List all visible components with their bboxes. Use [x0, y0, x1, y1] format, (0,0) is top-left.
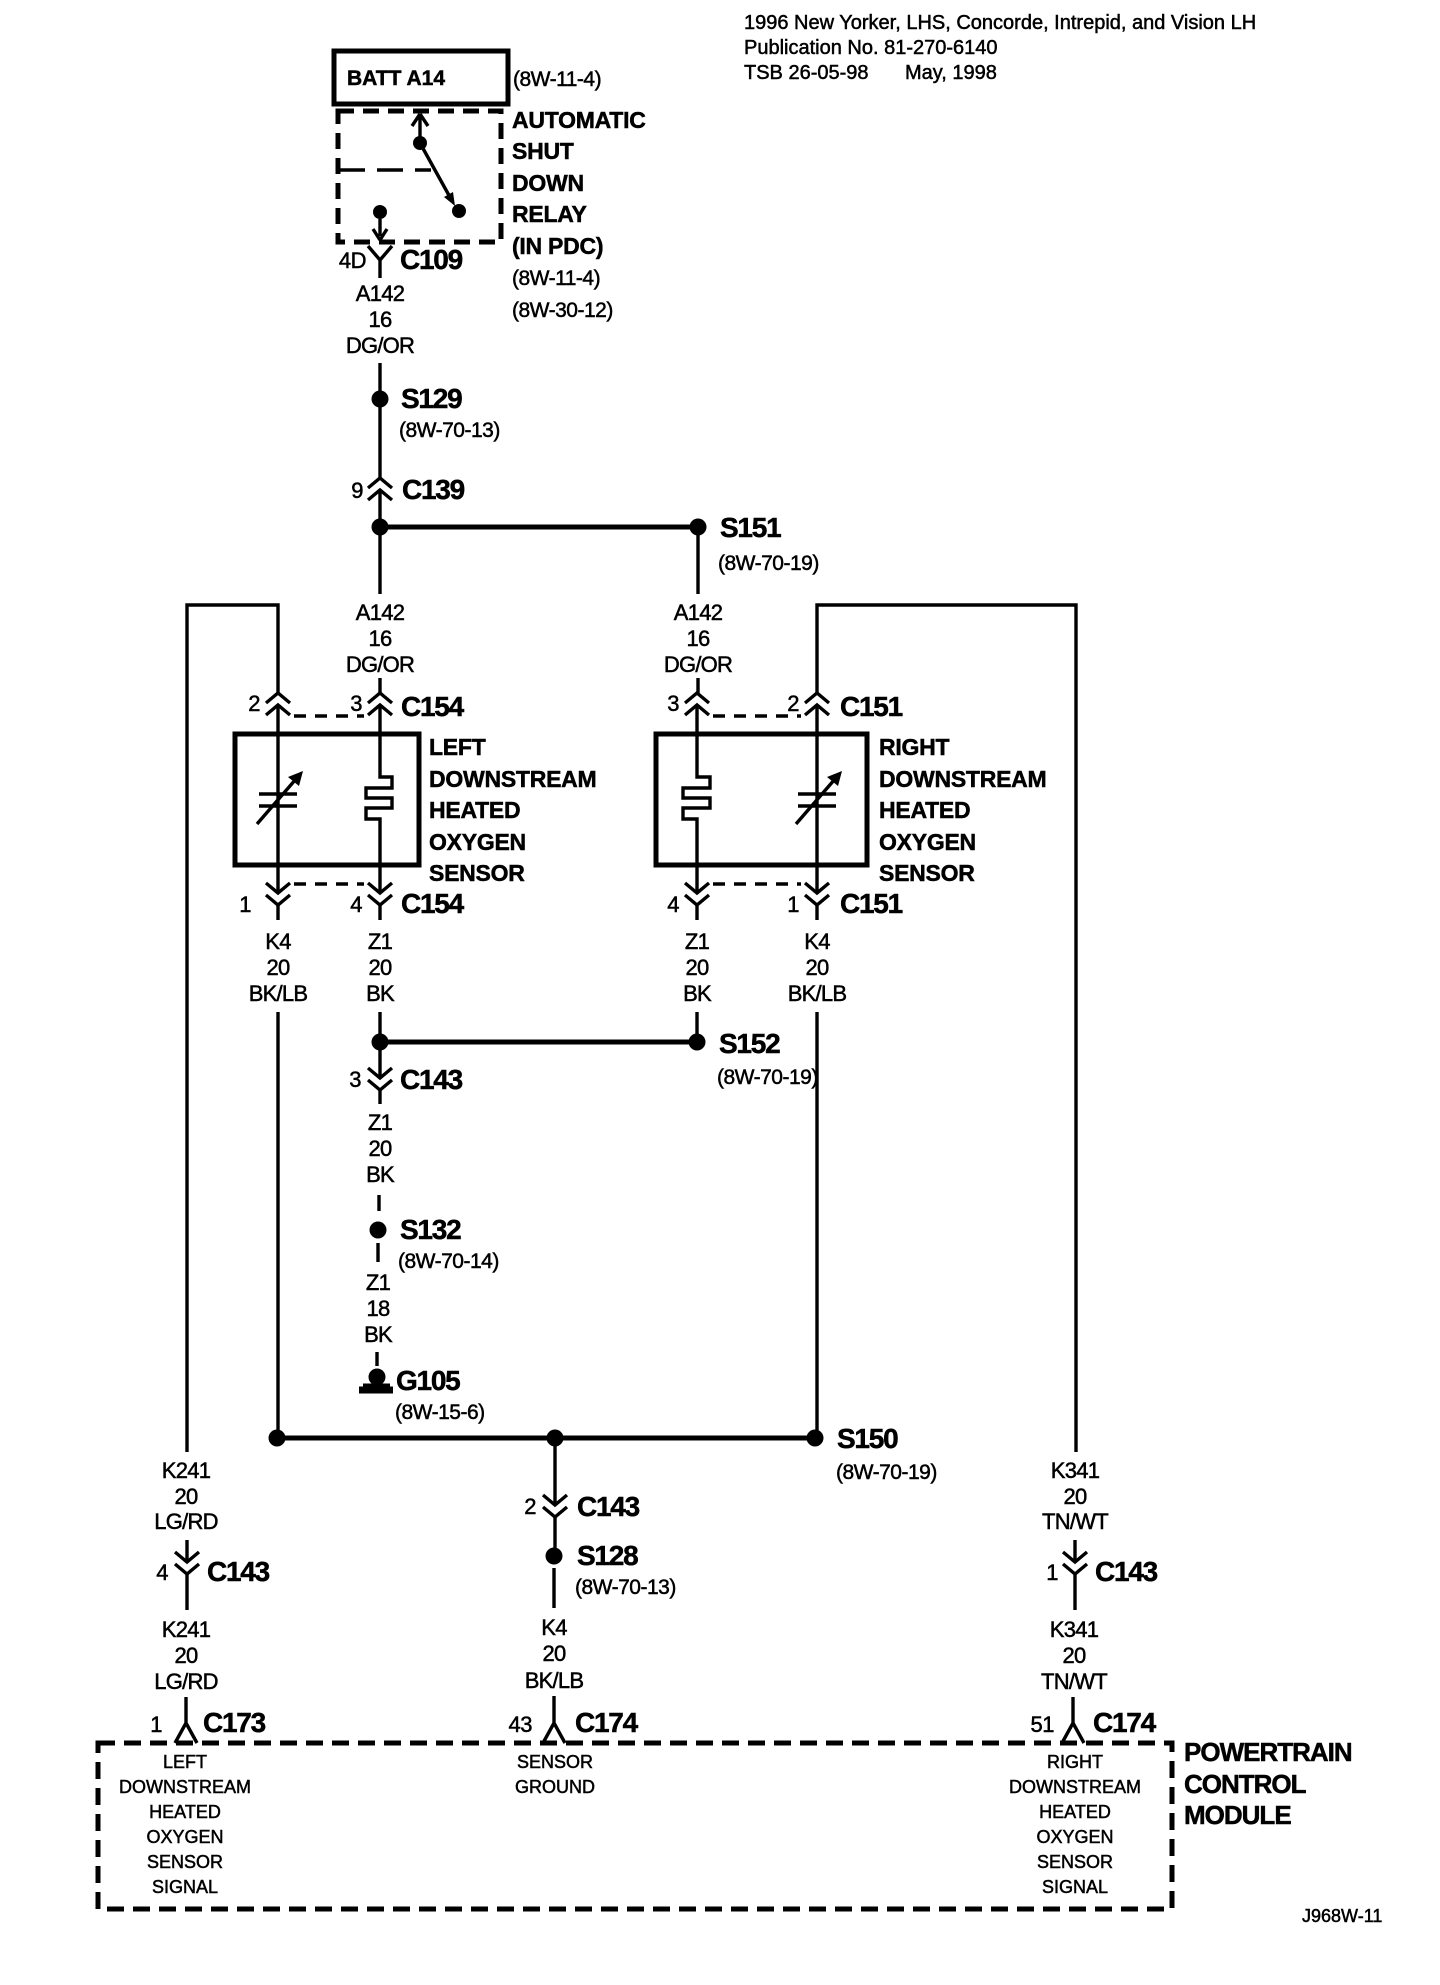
- wire S129 to C139: [378, 407, 381, 478]
- svg-text:TSB 26-05-98: TSB 26-05-98: [744, 62, 869, 84]
- svg-text:DOWNSTREAM: DOWNSTREAM: [119, 1777, 251, 1797]
- svg-text:DG/OR: DG/OR: [664, 652, 732, 677]
- svg-text:OXYGEN: OXYGEN: [1036, 1827, 1113, 1847]
- connector C143 pin 4: [156, 1540, 269, 1592]
- svg-text:TN/WT: TN/WT: [1042, 1509, 1108, 1534]
- node sensor ground label: [515, 1752, 595, 1797]
- splice S151: [690, 512, 819, 575]
- svg-text:C143: C143: [1095, 1556, 1158, 1587]
- sensor left downstream heated oxygen sensor box: [235, 734, 419, 865]
- svg-text:C174: C174: [1093, 1707, 1157, 1738]
- module powertrain control module dashed box: [98, 1743, 1172, 1909]
- svg-text:J968W-11: J968W-11: [1302, 1906, 1382, 1926]
- wire Z1 20 BK label (left): [366, 905, 395, 1006]
- svg-text:C173: C173: [203, 1707, 266, 1738]
- sensor right downstream heated oxygen sensor box: [656, 734, 867, 865]
- svg-text:S152: S152: [719, 1028, 780, 1059]
- svg-text:OXYGEN: OXYGEN: [429, 829, 526, 855]
- connector C139 pin 9: [351, 474, 464, 509]
- svg-text:43: 43: [509, 1712, 533, 1737]
- wire left K4 down to S150 line: [276, 1012, 279, 1438]
- relay switch contacts: [373, 114, 466, 240]
- wire K4 20 BK/LB label (left): [249, 905, 308, 1006]
- svg-text:18: 18: [367, 1296, 390, 1321]
- wire left Z1 to junction: [378, 1012, 381, 1042]
- node right downstream heated oxygen sensor signal label: [1009, 1752, 1141, 1897]
- svg-text:K341: K341: [1051, 1458, 1100, 1483]
- left sensor variable resistor element: [257, 771, 303, 824]
- svg-text:(8W-70-13): (8W-70-13): [575, 1576, 676, 1599]
- wire K341 20 TN/WT label (lower): [1041, 1592, 1107, 1694]
- svg-text:20: 20: [369, 1136, 392, 1161]
- wire S150 ground bus: [277, 1436, 815, 1441]
- svg-text:SENSOR: SENSOR: [1037, 1852, 1113, 1872]
- svg-text:20: 20: [543, 1641, 566, 1666]
- svg-text:C109: C109: [400, 244, 463, 275]
- svg-text:2: 2: [787, 691, 799, 716]
- svg-text:Z1: Z1: [368, 929, 393, 954]
- svg-text:S150: S150: [837, 1423, 898, 1454]
- right sensor heater element: [683, 734, 710, 865]
- svg-text:POWERTRAIN: POWERTRAIN: [1184, 1737, 1352, 1767]
- wire K4 20 BK/LB label (right): [788, 905, 847, 1006]
- wire Z1 18 BK label: [364, 1270, 393, 1347]
- svg-text:(8W-70-19): (8W-70-19): [718, 552, 819, 575]
- svg-text:20: 20: [806, 955, 829, 980]
- svg-text:K341: K341: [1050, 1617, 1099, 1642]
- svg-text:Z1: Z1: [368, 1110, 393, 1135]
- svg-text:A142: A142: [674, 600, 723, 625]
- svg-text:1: 1: [1046, 1560, 1058, 1585]
- relay name label: [512, 107, 646, 322]
- svg-text:C154: C154: [401, 888, 465, 919]
- svg-text:AUTOMATIC: AUTOMATIC: [512, 107, 646, 133]
- connector C143 pin 1: [1046, 1540, 1157, 1592]
- svg-text:DOWNSTREAM: DOWNSTREAM: [429, 766, 596, 792]
- svg-text:20: 20: [369, 955, 392, 980]
- svg-text:1: 1: [150, 1712, 162, 1737]
- svg-text:BK/LB: BK/LB: [249, 981, 308, 1006]
- svg-text:A142: A142: [356, 600, 405, 625]
- splice S128: [546, 1540, 676, 1608]
- svg-text:BK: BK: [683, 981, 712, 1006]
- svg-text:K4: K4: [265, 929, 291, 954]
- svg-text:3: 3: [350, 691, 362, 716]
- svg-text:20: 20: [175, 1484, 198, 1509]
- wire Z1 20 BK label (below C143): [366, 1110, 395, 1187]
- svg-text:MODULE: MODULE: [1184, 1800, 1291, 1830]
- svg-text:20: 20: [1063, 1643, 1086, 1668]
- svg-text:G105: G105: [396, 1365, 460, 1396]
- svg-text:2: 2: [248, 691, 260, 716]
- wire K4 20 BK/LB label (middle): [525, 1615, 584, 1693]
- wire to S129: [378, 363, 381, 392]
- svg-text:SENSOR: SENSOR: [147, 1852, 223, 1872]
- svg-text:SIGNAL: SIGNAL: [152, 1877, 218, 1897]
- wire to S132: [377, 1195, 380, 1211]
- wire A142 16 DG/OR label (left branch): [346, 600, 414, 677]
- svg-text:LEFT: LEFT: [429, 734, 486, 760]
- wire S151 down right branch: [696, 535, 699, 594]
- svg-text:SENSOR: SENSOR: [429, 860, 525, 886]
- svg-text:SHUT: SHUT: [512, 138, 574, 164]
- svg-text:HEATED: HEATED: [1039, 1802, 1111, 1822]
- svg-text:S132: S132: [400, 1214, 461, 1245]
- svg-text:SENSOR: SENSOR: [517, 1752, 593, 1772]
- svg-text:16: 16: [687, 626, 710, 651]
- svg-text:C143: C143: [577, 1491, 640, 1522]
- svg-text:BATT A14: BATT A14: [347, 67, 445, 90]
- svg-text:(8W-70-19): (8W-70-19): [717, 1066, 818, 1089]
- svg-text:S151: S151: [720, 512, 781, 543]
- svg-text:1: 1: [787, 892, 799, 917]
- splice S132: [370, 1214, 499, 1273]
- svg-text:C143: C143: [400, 1064, 463, 1095]
- connector C173 pin 1: [150, 1697, 265, 1743]
- svg-text:K241: K241: [162, 1458, 211, 1483]
- svg-text:K241: K241: [162, 1617, 211, 1642]
- module name powertrain control module: [1184, 1737, 1352, 1830]
- svg-text:HEATED: HEATED: [879, 797, 970, 823]
- svg-text:4: 4: [156, 1560, 168, 1585]
- svg-text:20: 20: [1064, 1484, 1087, 1509]
- wire left sensor signal path pin2 to K241 run: [187, 605, 278, 1452]
- svg-text:BK/LB: BK/LB: [525, 1668, 584, 1693]
- svg-text:CONTROL: CONTROL: [1184, 1769, 1307, 1799]
- svg-text:DOWNSTREAM: DOWNSTREAM: [1009, 1777, 1141, 1797]
- wire C139 to node: [378, 509, 381, 521]
- connector C143 pin 2: [524, 1491, 639, 1548]
- svg-text:A142: A142: [356, 281, 405, 306]
- wire right K4 down to S150 line: [815, 1012, 818, 1438]
- svg-text:51: 51: [1031, 1712, 1055, 1737]
- connector C109 pin 4D: [339, 244, 463, 278]
- svg-text:(8W-11-4): (8W-11-4): [512, 267, 600, 290]
- right sensor variable resistor element: [796, 771, 842, 824]
- wire to G105: [375, 1352, 378, 1366]
- connector C154 top pins 2 and 3: [248, 691, 464, 734]
- wire A142 16 DG/OR label (top): [346, 281, 414, 358]
- svg-text:C151: C151: [840, 691, 903, 722]
- ground G105: [359, 1365, 485, 1424]
- svg-text:BK/LB: BK/LB: [788, 981, 847, 1006]
- wire right Z1 to S152: [695, 1012, 698, 1034]
- relay K1 automatic shut down relay dashed box: [338, 111, 501, 242]
- svg-text:RIGHT: RIGHT: [879, 734, 950, 760]
- svg-text:K4: K4: [541, 1615, 567, 1640]
- node left downstream heated oxygen sensor signal label: [119, 1752, 251, 1897]
- svg-text:OXYGEN: OXYGEN: [146, 1827, 223, 1847]
- connector C174 pin 51: [1031, 1697, 1157, 1743]
- svg-text:RIGHT: RIGHT: [1047, 1752, 1103, 1772]
- connector C174 pin 43: [509, 1696, 639, 1743]
- svg-text:(8W-70-14): (8W-70-14): [398, 1250, 499, 1273]
- splice S150: [807, 1423, 937, 1484]
- wire A142 16 DG/OR label (right branch): [664, 600, 732, 677]
- svg-text:(8W-30-12): (8W-30-12): [512, 299, 613, 322]
- svg-text:RELAY: RELAY: [512, 201, 587, 227]
- wire right sensor signal path pin2 to K341 run: [817, 605, 1076, 1452]
- svg-text:GROUND: GROUND: [515, 1777, 595, 1797]
- wire K241 20 LG/RD label (lower): [154, 1592, 218, 1694]
- svg-text:4: 4: [350, 892, 362, 917]
- svg-text:(8W-15-6): (8W-15-6): [395, 1401, 485, 1424]
- node BATT A14 feed box: [334, 51, 601, 104]
- splice S152: [689, 1028, 818, 1089]
- svg-text:(IN PDC): (IN PDC): [512, 233, 603, 259]
- node junction dot on Z1: [372, 1034, 389, 1051]
- wire node down left branch: [378, 535, 381, 594]
- svg-text:SIGNAL: SIGNAL: [1042, 1877, 1108, 1897]
- svg-text:Z1: Z1: [366, 1270, 391, 1295]
- svg-text:DG/OR: DG/OR: [346, 333, 414, 358]
- right sensor name label: [879, 734, 1046, 886]
- left sensor internal wires: [276, 734, 279, 865]
- svg-text:C174: C174: [575, 1707, 639, 1738]
- svg-text:Z1: Z1: [685, 929, 710, 954]
- svg-text:Publication No. 81-270-6140: Publication No. 81-270-6140: [744, 37, 998, 59]
- svg-text:20: 20: [267, 955, 290, 980]
- svg-text:(8W-70-19): (8W-70-19): [836, 1461, 937, 1484]
- connector C151 top pins 3 and 2: [667, 691, 902, 734]
- svg-text:9: 9: [351, 478, 363, 503]
- svg-text:LG/RD: LG/RD: [154, 1509, 218, 1534]
- svg-text:SENSOR: SENSOR: [879, 860, 975, 886]
- svg-text:DOWNSTREAM: DOWNSTREAM: [879, 766, 1046, 792]
- right sensor internal wires: [815, 734, 818, 865]
- svg-text:TN/WT: TN/WT: [1041, 1669, 1107, 1694]
- svg-text:OXYGEN: OXYGEN: [879, 829, 976, 855]
- svg-text:S129: S129: [401, 383, 462, 414]
- svg-text:DOWN: DOWN: [512, 170, 584, 196]
- svg-text:C143: C143: [207, 1556, 270, 1587]
- svg-text:20: 20: [686, 955, 709, 980]
- svg-text:1: 1: [239, 892, 251, 917]
- wire Z1 20 BK label (right): [683, 905, 712, 1006]
- svg-text:DG/OR: DG/OR: [346, 652, 414, 677]
- svg-text:BK: BK: [366, 1162, 395, 1187]
- wire label to C151: [696, 678, 699, 693]
- left sensor name label: [429, 734, 596, 886]
- svg-text:16: 16: [369, 307, 392, 332]
- svg-text:(8W-70-13): (8W-70-13): [399, 419, 500, 442]
- connector C154 bottom pins 1 and 4: [239, 865, 464, 919]
- svg-text:4D: 4D: [339, 248, 366, 273]
- svg-text:HEATED: HEATED: [149, 1802, 221, 1822]
- wire node to S151: [380, 525, 698, 530]
- wire middle dot down to C143: [553, 1446, 556, 1505]
- svg-text:C139: C139: [402, 474, 465, 505]
- svg-text:C151: C151: [840, 888, 903, 919]
- svg-text:(8W-11-4): (8W-11-4): [513, 68, 601, 91]
- svg-text:1996 New Yorker, LHS, Concorde: 1996 New Yorker, LHS, Concorde, Intrepid…: [744, 12, 1256, 34]
- wire K241 20 LG/RD label (upper): [154, 1458, 218, 1534]
- svg-text:K4: K4: [804, 929, 830, 954]
- svg-text:S128: S128: [577, 1540, 638, 1571]
- wire junction to S152: [380, 1040, 697, 1045]
- node dot middle on S150 bus: [547, 1430, 564, 1447]
- node junction dot under C139: [372, 519, 389, 536]
- left sensor heater element: [366, 734, 392, 865]
- svg-text:LEFT: LEFT: [163, 1752, 207, 1772]
- svg-text:LG/RD: LG/RD: [154, 1669, 218, 1694]
- svg-text:4: 4: [667, 892, 679, 917]
- node dot left on S150 bus: [269, 1430, 286, 1447]
- svg-text:20: 20: [175, 1643, 198, 1668]
- connector C143 pin 3: [349, 1050, 462, 1104]
- svg-text:May, 1998: May, 1998: [905, 62, 997, 84]
- connector C151 bottom pins 4 and 1: [667, 865, 902, 919]
- svg-text:HEATED: HEATED: [429, 797, 520, 823]
- svg-text:16: 16: [369, 626, 392, 651]
- wire label to C154: [378, 678, 381, 693]
- svg-text:BK: BK: [366, 981, 395, 1006]
- svg-text:C154: C154: [401, 691, 465, 722]
- title block header text: [744, 12, 1256, 84]
- svg-text:BK: BK: [364, 1322, 393, 1347]
- svg-text:3: 3: [349, 1067, 361, 1092]
- svg-text:3: 3: [667, 691, 679, 716]
- svg-text:2: 2: [524, 1494, 536, 1519]
- splice S129: [372, 383, 500, 442]
- wire K341 20 TN/WT label (upper): [1042, 1458, 1108, 1534]
